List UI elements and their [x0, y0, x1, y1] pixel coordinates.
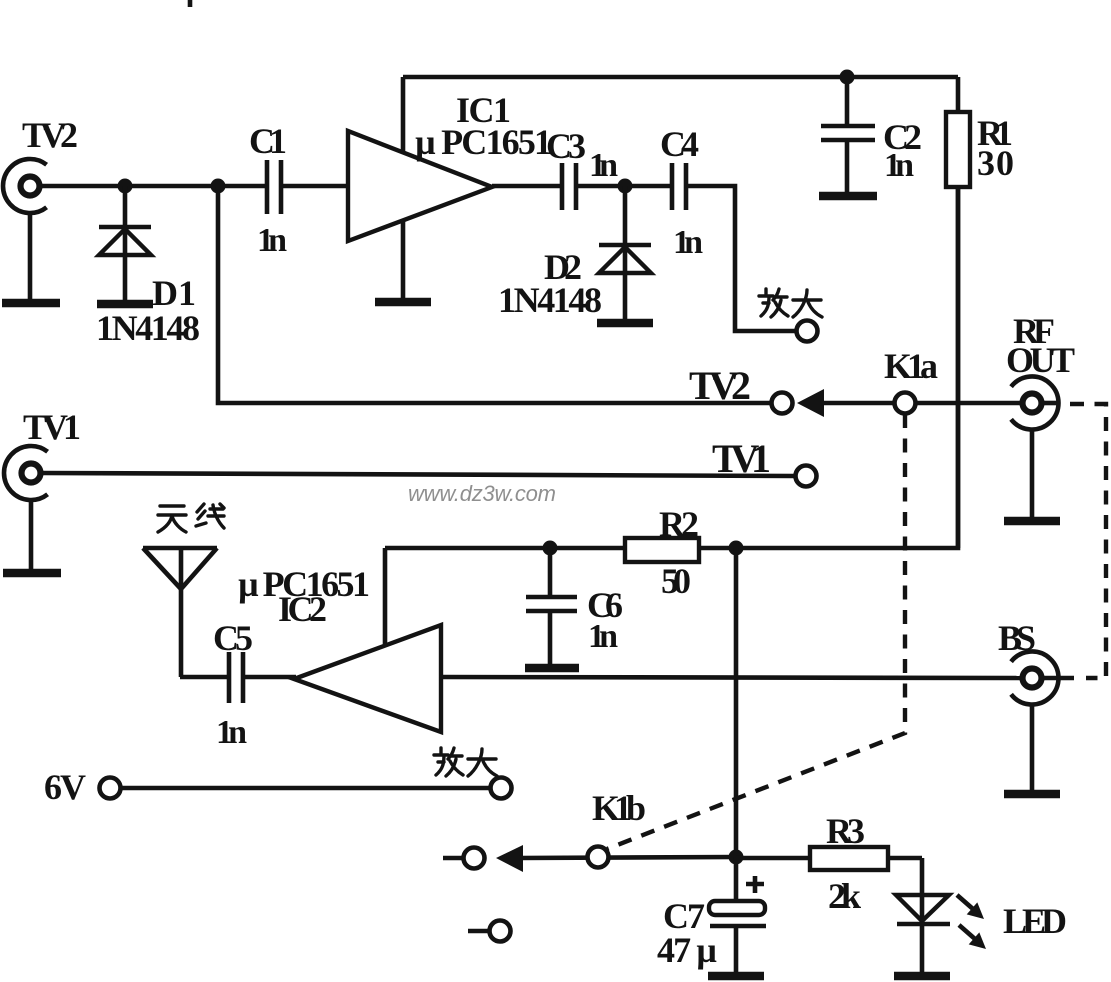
ground RF OUT — [1004, 517, 1060, 526]
svg-text:OUT: OUT — [1006, 340, 1075, 380]
svg-text:C3: C3 — [546, 126, 586, 166]
ground C6 — [525, 664, 579, 673]
wire K1b unused stub — [468, 929, 489, 934]
terminal 6V — [100, 778, 121, 799]
switch K1b pivot — [588, 847, 609, 868]
switch K1b arrow — [496, 845, 736, 872]
wire IC1 out to C3 — [492, 184, 560, 189]
ground TV2 — [2, 299, 60, 308]
op-amp IC2 — [294, 625, 441, 732]
wire IC2 feedback up — [383, 548, 388, 646]
wire top feedback rail — [403, 75, 958, 80]
svg-text:6V: 6V — [44, 767, 86, 807]
svg-text:R2: R2 — [659, 504, 699, 544]
svg-text:1n: 1n — [588, 618, 618, 655]
wire K1a to RF OUT — [916, 401, 1022, 406]
LED emission arrows — [957, 895, 986, 949]
dashed link RF OUT to BS — [1070, 404, 1106, 678]
svg-text:TV2: TV2 — [689, 363, 751, 408]
wire C1 to IC1 — [283, 184, 348, 189]
label RF OUT — [1006, 311, 1075, 380]
capacitor C7 — [709, 857, 766, 972]
wire IC2 out to BS — [441, 677, 1022, 678]
wire K1b throw stub — [443, 856, 463, 861]
svg-text:30: 30 — [977, 143, 1014, 183]
wire R3 to LED — [888, 856, 922, 861]
svg-text:µ PC1651: µ PC1651 — [415, 122, 552, 162]
svg-text:1n: 1n — [589, 147, 618, 184]
diode D2 — [599, 186, 651, 319]
resistor R3 — [810, 847, 888, 870]
ground C2 — [819, 192, 877, 201]
terminal K1b unused — [490, 921, 511, 942]
wire junction down to K1b row — [734, 548, 739, 857]
ground C7 — [708, 972, 764, 981]
wire junction down to switch row — [218, 186, 771, 403]
label tianxian antenna — [158, 504, 224, 532]
wire BS lead down — [1030, 705, 1035, 790]
diode D1 — [99, 186, 151, 300]
svg-text:TV2: TV2 — [22, 115, 78, 155]
op-amp IC1 — [348, 131, 492, 241]
svg-text:K1a: K1a — [884, 346, 938, 386]
connector RF OUT — [1011, 377, 1058, 430]
capacitor C4 — [672, 163, 686, 210]
wire IC1 feedback up — [401, 77, 406, 153]
svg-text:1N4148: 1N4148 — [96, 308, 200, 348]
svg-text:1n: 1n — [673, 224, 703, 261]
wire junction to R3 — [736, 856, 810, 861]
connector TV2 — [3, 159, 47, 213]
resistor R1 — [946, 77, 970, 548]
ground BS — [1004, 790, 1060, 799]
wire RF OUT lead down — [1030, 430, 1035, 517]
svg-text:www.dz3w.com: www.dz3w.com — [408, 481, 556, 506]
svg-text:TV1: TV1 — [23, 407, 81, 447]
svg-text:TV1: TV1 — [712, 436, 771, 481]
wire 6V to fangda — [122, 786, 489, 791]
wire C4 to amp terminal — [688, 186, 796, 331]
wire feedback rail to R2 — [385, 546, 625, 551]
wire R2 to R1 branch — [699, 187, 958, 548]
node D1 junction — [118, 179, 133, 194]
ground D1 — [97, 300, 153, 309]
svg-text:C5: C5 — [213, 618, 253, 658]
svg-text:C1: C1 — [249, 121, 287, 161]
terminal TV1 throw — [796, 466, 817, 487]
svg-text:2k: 2k — [828, 876, 861, 916]
capacitor C6 — [526, 548, 577, 664]
terminal fangda top — [797, 321, 818, 342]
scan artifact tick top — [188, 0, 193, 7]
svg-text:R3: R3 — [826, 811, 865, 851]
wire TV2 lead down — [28, 212, 33, 299]
connector TV1 — [4, 446, 48, 500]
ground LED — [894, 972, 950, 981]
capacitor C7 plus sign — [746, 876, 764, 893]
switch K1a pivot — [895, 393, 916, 414]
connector BS — [1011, 652, 1074, 705]
node K1b junction — [729, 850, 744, 865]
wire antenna to C5 — [180, 675, 227, 680]
svg-text:C4: C4 — [660, 124, 699, 164]
svg-text:1n: 1n — [216, 714, 247, 751]
terminal K1b throw — [464, 848, 485, 869]
capacitor C5 — [229, 652, 243, 703]
node C6 junction — [543, 541, 558, 556]
svg-text:1n: 1n — [257, 222, 287, 259]
capacitor C3 — [562, 163, 576, 210]
capacitor C2 — [821, 77, 875, 193]
node C2 junction — [840, 70, 855, 85]
switch K1a arrow — [797, 389, 894, 417]
resistor R2 — [625, 538, 699, 562]
wire TV1 to throw terminal — [42, 473, 795, 476]
label fangda bottom — [434, 748, 497, 776]
svg-text:K1b: K1b — [592, 788, 646, 828]
wire IC1 ground lead — [401, 220, 406, 299]
wire C5 to IC2 — [245, 675, 296, 680]
svg-text:LED: LED — [1003, 901, 1067, 941]
svg-text:50: 50 — [661, 561, 691, 601]
antenna symbol — [143, 548, 217, 677]
terminal TV2 throw — [772, 393, 793, 414]
node TV2 branch junction — [211, 179, 226, 194]
capacitor C1 — [267, 160, 281, 214]
LED D3 — [896, 858, 950, 972]
dashed link K1 — [607, 414, 905, 849]
ground D2 — [597, 319, 653, 328]
node R2 junction — [729, 541, 744, 556]
label fangda top — [759, 289, 822, 317]
svg-text:IC2: IC2 — [278, 589, 327, 629]
svg-text:47 µ: 47 µ — [657, 930, 717, 970]
ground IC1 — [375, 298, 431, 307]
ground TV1 — [3, 569, 61, 578]
svg-text:1N4148: 1N4148 — [498, 280, 602, 320]
svg-text:D1: D1 — [152, 273, 196, 313]
wire C3 to C4 — [578, 184, 670, 189]
wire TV1 lead down — [29, 500, 34, 569]
wire TV2 to C1 — [41, 184, 265, 189]
terminal fangda bottom — [491, 778, 512, 799]
svg-text:1n: 1n — [884, 147, 914, 184]
node D2 junction — [618, 179, 633, 194]
